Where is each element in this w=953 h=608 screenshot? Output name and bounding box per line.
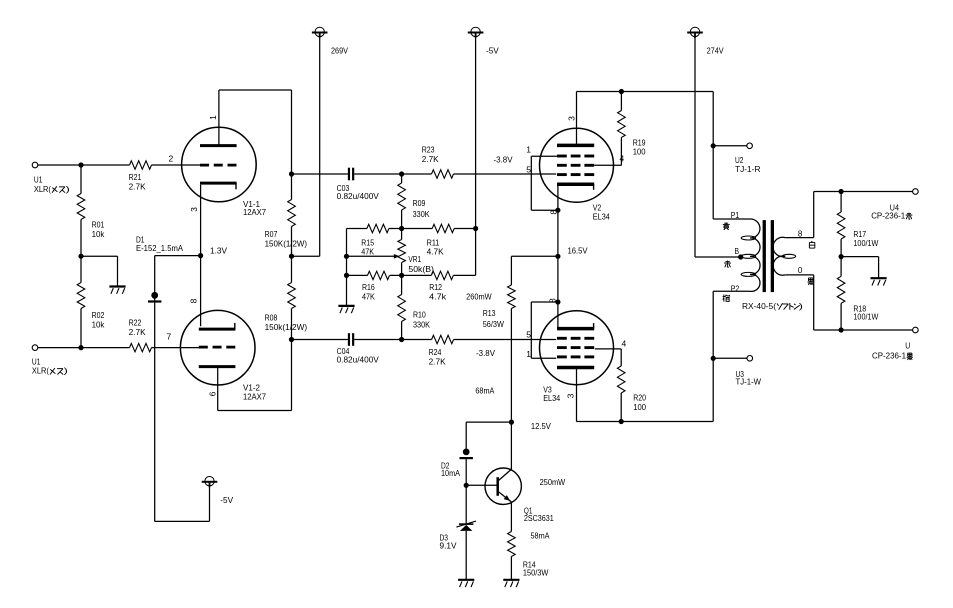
- svg-text:VR1: VR1: [408, 254, 421, 264]
- svg-text:1: 1: [526, 145, 531, 155]
- svg-text:TJ-1-W: TJ-1-W: [736, 377, 762, 387]
- svg-text:U: U: [905, 341, 910, 351]
- svg-text:330K: 330K: [413, 319, 430, 329]
- svg-text:3: 3: [567, 116, 577, 121]
- svg-text:2.7K: 2.7K: [129, 182, 146, 192]
- svg-text:1: 1: [208, 115, 218, 120]
- svg-text:XLR(: XLR(: [34, 184, 51, 194]
- svg-text:100: 100: [633, 147, 646, 157]
- svg-text:47K: 47K: [361, 247, 374, 257]
- svg-text:CP-236-1: CP-236-1: [872, 351, 906, 361]
- svg-text:-5V: -5V: [486, 46, 499, 56]
- svg-text:3: 3: [565, 393, 575, 398]
- svg-text:8: 8: [549, 210, 559, 215]
- svg-text:10k: 10k: [92, 319, 105, 329]
- svg-text:): ): [799, 301, 803, 311]
- svg-text:CP-236-1: CP-236-1: [871, 211, 905, 221]
- svg-text:330K: 330K: [413, 209, 430, 219]
- svg-text:50k(B): 50k(B): [408, 264, 434, 274]
- svg-text:150k(1/2W): 150k(1/2W): [265, 322, 308, 332]
- svg-text:2.7K: 2.7K: [422, 154, 439, 164]
- svg-text:12AX7: 12AX7: [243, 391, 266, 401]
- svg-text:1.3V: 1.3V: [210, 246, 227, 256]
- svg-text:-3.8V: -3.8V: [476, 348, 495, 358]
- svg-text:68mA: 68mA: [475, 386, 494, 396]
- svg-text:12.5V: 12.5V: [531, 421, 551, 431]
- svg-text:RX-40-5(: RX-40-5(: [742, 301, 776, 311]
- svg-text:2: 2: [169, 154, 174, 164]
- svg-text:5: 5: [526, 165, 531, 175]
- svg-text:4: 4: [620, 154, 625, 164]
- svg-text:12AX7: 12AX7: [243, 207, 266, 217]
- svg-text:58mA: 58mA: [531, 531, 550, 541]
- svg-text:EL34: EL34: [543, 393, 560, 403]
- svg-text:8: 8: [189, 298, 199, 303]
- svg-text:P2: P2: [731, 284, 740, 294]
- svg-text:10k: 10k: [92, 229, 105, 239]
- svg-text:7: 7: [167, 332, 172, 342]
- svg-text:): ): [64, 366, 68, 376]
- svg-text:4: 4: [622, 338, 627, 348]
- svg-text:2.7K: 2.7K: [429, 357, 446, 367]
- svg-text:0.82u/400V: 0.82u/400V: [337, 191, 380, 201]
- svg-text:5: 5: [526, 330, 531, 340]
- svg-text:1: 1: [526, 349, 531, 359]
- svg-text:0: 0: [798, 265, 803, 275]
- svg-text:2.7K: 2.7K: [129, 327, 146, 337]
- svg-text:-3.8V: -3.8V: [494, 155, 513, 165]
- svg-text:260mW: 260mW: [466, 292, 492, 302]
- svg-text:R09: R09: [413, 198, 426, 208]
- svg-text:9.1V: 9.1V: [440, 540, 457, 550]
- svg-text:8: 8: [798, 229, 803, 239]
- svg-text:10mA: 10mA: [441, 468, 460, 478]
- svg-text:R20: R20: [633, 393, 646, 403]
- svg-text:150/3W: 150/3W: [523, 568, 549, 578]
- svg-text:274V: 274V: [707, 46, 724, 56]
- svg-text:250mW: 250mW: [540, 477, 566, 487]
- svg-text:4.7K: 4.7K: [427, 247, 444, 257]
- svg-text:4.7k: 4.7k: [429, 291, 447, 301]
- svg-text:0.82u/400V: 0.82u/400V: [337, 355, 380, 365]
- svg-text:-5V: -5V: [220, 495, 233, 505]
- svg-text:150K(1/2W): 150K(1/2W): [265, 239, 308, 249]
- svg-text:16.5V: 16.5V: [568, 246, 588, 256]
- svg-text:XLR(: XLR(: [32, 366, 49, 376]
- svg-text:R10: R10: [413, 310, 426, 320]
- svg-text:6: 6: [207, 391, 217, 396]
- svg-text:8: 8: [548, 298, 558, 303]
- svg-text:EL34: EL34: [593, 212, 610, 222]
- svg-text:100/1W: 100/1W: [853, 238, 878, 248]
- svg-text:B: B: [735, 246, 740, 256]
- svg-text:3: 3: [189, 207, 199, 212]
- svg-text:E-152_1.5mA: E-152_1.5mA: [136, 243, 183, 253]
- svg-text:100/1W: 100/1W: [853, 312, 878, 322]
- svg-text:R13: R13: [483, 308, 496, 318]
- svg-text:56/3W: 56/3W: [483, 319, 504, 329]
- svg-text:R07: R07: [265, 229, 278, 239]
- svg-text:TJ-1-R: TJ-1-R: [735, 164, 761, 174]
- svg-text:100: 100: [633, 402, 646, 412]
- svg-text:269V: 269V: [331, 46, 348, 56]
- svg-text:2SC3631: 2SC3631: [524, 513, 554, 523]
- svg-text:P1: P1: [731, 210, 740, 220]
- svg-text:): ): [66, 184, 70, 194]
- svg-text:47K: 47K: [362, 291, 375, 301]
